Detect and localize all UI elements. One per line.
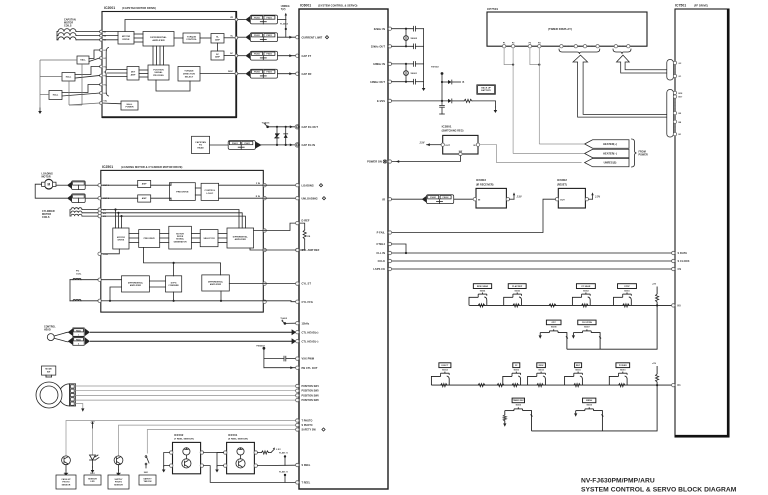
wire COM to motor drive	[101, 249, 119, 254]
wire position bottom loop to torque direction select	[156, 80, 190, 91]
svg-text:J.5V: J.5V	[276, 449, 281, 451]
svg-text:CCLK: CCLK	[378, 259, 385, 263]
svg-text:DIFFERENTIAL: DIFFERENTIAL	[128, 281, 144, 284]
pin IR	[388, 198, 391, 201]
svg-text:IN: IN	[478, 199, 481, 201]
svg-text:DIFFERENTIAL: DIFFERENTIAL	[233, 235, 249, 238]
svg-text:CTL HEAD(−): CTL HEAD(−)	[302, 339, 319, 343]
svg-text:T REEL: T REEL	[302, 482, 311, 485]
wire duty compare feedback	[144, 247, 221, 275]
svg-text:S6001: S6001	[624, 291, 629, 293]
svg-text:PRE DRIVE: PRE DRIVE	[176, 191, 189, 193]
svg-text:NV-FJ630PM/PMP/ARU: NV-FJ630PM/PMP/ARU	[581, 478, 655, 485]
block torque direction select	[178, 67, 200, 82]
wire det amp to position x3	[139, 69, 148, 71]
svg-text:FS211: FS211	[267, 72, 273, 74]
svg-text:T PHOTO: T PHOTO	[302, 420, 313, 423]
svg-text:VXX PWM: VXX PWM	[302, 357, 315, 361]
pin P FAIL	[388, 231, 391, 234]
svg-text:PRE DRIVE: PRE DRIVE	[144, 238, 156, 240]
wire K0 sub return	[567, 305, 657, 349]
svg-text:H2+: H2+	[104, 67, 108, 69]
connector row CURRENT LIMIT	[238, 36, 245, 38]
svg-text:CLL IN: CLL IN	[376, 251, 385, 255]
wire bus motor coils to motor drive	[102, 31, 118, 33]
wire PG coil lines	[70, 279, 98, 281]
pins IC1501	[224, 451, 227, 454]
svg-text:S6015: S6015	[586, 405, 591, 407]
svg-text:MOTOR: MOTOR	[42, 176, 51, 179]
svg-text:CS: CS	[678, 267, 682, 271]
pin IC6002 VCC	[585, 198, 588, 201]
svg-text:DIRECTION: DIRECTION	[183, 73, 195, 75]
wire out1 amp	[101, 184, 137, 186]
diode pair FG clamp	[276, 126, 278, 128]
svg-text:SENSOR: SENSOR	[62, 484, 71, 486]
svg-text:+5V: +5V	[652, 284, 657, 286]
wire hall power sense	[81, 64, 83, 105]
svg-text:LOADING: LOADING	[302, 183, 314, 187]
block IC1501	[227, 442, 255, 473]
svg-text:HALL: HALL	[127, 103, 133, 106]
wire IC1501 left stubs	[217, 453, 224, 466]
brace group A	[559, 49, 600, 54]
svg-text:7(V): 7(V)	[281, 8, 286, 11]
block differential amplifier pg	[122, 276, 150, 292]
block differential amplifier ctl	[202, 275, 230, 291]
switch EJECT	[439, 363, 451, 368]
svg-text:CAP FT: CAP FT	[302, 54, 312, 58]
connector FS02 out1	[72, 181, 86, 190]
wire CAP FG IN line	[255, 144, 295, 146]
block control logic	[201, 183, 219, 200]
connector row UNREG	[238, 19, 245, 21]
pin VXX PWM	[296, 357, 299, 360]
svg-text:S6011: S6011	[575, 370, 580, 372]
wire ctl head minus	[68, 337, 73, 345]
svg-text:SENSOR: SENSOR	[88, 478, 97, 480]
svg-text:AMPLIFIER: AMPLIFIER	[235, 238, 247, 241]
svg-text:IN: IN	[473, 145, 476, 147]
crystal X6002	[405, 29, 407, 36]
block pre drive loading	[169, 183, 195, 201]
svg-text:UNREG(S): UNREG(S)	[604, 162, 617, 165]
hall sensor H2	[62, 73, 75, 82]
svg-text:S601: S601	[144, 472, 148, 474]
wire diff ctl bottom	[220, 291, 222, 301]
svg-text:POWER: POWER	[125, 107, 134, 109]
pin IC6003 IN	[473, 198, 476, 201]
svg-text:FS201: FS201	[254, 54, 260, 56]
mode switch wiper housing	[61, 384, 70, 406]
block CP7501 display	[487, 12, 647, 46]
switch REC	[575, 363, 582, 368]
wire crystal ground rail	[423, 29, 425, 85]
hollow arrow segments bus	[573, 55, 667, 117]
switch STOP row1	[618, 284, 637, 289]
svg-text:TW10U: TW10U	[431, 67, 439, 69]
svg-text:CASS-UP: CASS-UP	[61, 478, 71, 481]
wire bus selector-diffamp	[218, 233, 227, 235]
svg-text:FS602: FS602	[443, 197, 449, 199]
svg-text:FS201: FS201	[254, 18, 260, 20]
pin T REEL	[296, 481, 299, 484]
block position signal process	[148, 65, 169, 80]
svg-text:X6002: X6002	[411, 38, 418, 40]
block duty compare	[166, 276, 182, 292]
svg-text:12MHz IN: 12MHz IN	[373, 62, 385, 66]
wire display P4 to heater+	[538, 48, 540, 144]
switch REW2	[537, 363, 546, 368]
crystal X6001	[405, 64, 407, 71]
svg-text:(CAPSTAN MOTOR DRIVE): (CAPSTAN MOTOR DRIVE)	[122, 6, 156, 10]
svg-text:HALL: HALL	[66, 75, 72, 78]
capstan motor coil windings	[58, 29, 76, 32]
block hall power	[121, 101, 138, 110]
svg-text:HALL: HALL	[80, 59, 86, 62]
svg-text:CYL FFG: CYL FFG	[302, 300, 313, 304]
wire hall bus to det amp	[107, 69, 127, 71]
svg-text:EJECT: EJECT	[442, 365, 449, 367]
svg-text:OPC: OPC	[551, 322, 556, 324]
wire K1 sub return	[532, 385, 658, 431]
svg-text:12kHz: 12kHz	[302, 321, 310, 325]
svg-text:Q501: Q501	[116, 473, 121, 475]
block IC2801	[443, 135, 478, 154]
svg-text:REW SEAR: REW SEAR	[477, 285, 489, 288]
svg-text:SAFETY: SAFETY	[143, 477, 152, 480]
svg-text:AMP: AMP	[215, 38, 220, 41]
block differential amplifier U-A	[143, 32, 174, 47]
cass-up photo sensor	[62, 456, 71, 465]
svg-text:STOP: STOP	[624, 286, 630, 288]
bus S CLOCK	[388, 259, 391, 262]
wire IC1501 to J5V	[258, 452, 262, 454]
wire CAP FG OUT line	[268, 126, 296, 128]
svg-text:CP7501: CP7501	[487, 7, 498, 11]
wire loading motor out2	[35, 184, 67, 198]
pin SAFETY SW	[296, 428, 299, 431]
pin 32kHz IN	[388, 27, 391, 30]
svg-text:TIMER REC: TIMER REC	[513, 400, 525, 402]
supply photo sensor	[114, 456, 123, 465]
svg-text:FS201: FS201	[254, 35, 260, 37]
svg-text:FS211: FS211	[267, 35, 273, 37]
svg-text:CURRENT LIMIT: CURRENT LIMIT	[302, 35, 323, 39]
wire out2 amp	[101, 197, 137, 199]
svg-text:POWER ON: POWER ON	[367, 160, 382, 164]
pin LOADING	[296, 184, 299, 187]
wire PB CTL OUT	[264, 367, 296, 369]
svg-text:SYSTEM CONTROL & SERVO BLOCK D: SYSTEM CONTROL & SERVO BLOCK DIAGRAM	[581, 486, 737, 493]
wire VR feedback to motor drive	[125, 20, 236, 32]
svg-text:TORQUE: TORQUE	[184, 71, 194, 73]
svg-text:TORQUE: TORQUE	[187, 36, 197, 38]
svg-text:CONTROL: CONTROL	[44, 327, 56, 329]
svg-text:S6016: S6016	[516, 405, 521, 407]
svg-text:DIFFERENTIAL: DIFFERENTIAL	[150, 36, 167, 39]
svg-text:SENSOR: SENSOR	[114, 484, 123, 486]
wire IC1502 left stubs	[164, 453, 170, 466]
svg-text:FS601: FS601	[430, 197, 436, 199]
svg-text:DVFG: DVFG	[171, 282, 177, 284]
block IC1502	[173, 442, 201, 473]
connector FS601/FS611	[228, 141, 255, 150]
wire 32kHz network	[392, 28, 414, 30]
svg-text:POSITION SW5: POSITION SW5	[302, 391, 320, 393]
svg-text:(LOADING MOTOR & CYLINDER MOTO: (LOADING MOTOR & CYLINDER MOTOR DRIVE)	[121, 165, 183, 169]
wire VSL pin to hall power	[102, 102, 121, 105]
svg-text:S PHOTO: S PHOTO	[302, 424, 313, 427]
pin CTL HEAD-	[296, 340, 299, 343]
svg-text:CONTROL: CONTROL	[186, 39, 197, 41]
arrow HEATER(&#8722;)	[585, 149, 629, 157]
block selector	[200, 230, 218, 247]
wire heater+ to display	[539, 143, 584, 145]
svg-text:IC6003: IC6003	[476, 178, 486, 182]
wire hall3 outputs	[62, 85, 100, 93]
block amp2	[138, 195, 151, 202]
pins display segment group A	[560, 45, 563, 48]
block capstan FG head	[192, 136, 210, 153]
svg-text:S CLOCK: S CLOCK	[678, 259, 690, 263]
pins IC1502	[170, 451, 173, 454]
wire pg return long	[110, 300, 263, 302]
svg-text:IC7501: IC7501	[675, 4, 686, 8]
svg-text:BATTERY: BATTERY	[481, 89, 491, 92]
wire cyl M bus	[101, 210, 239, 229]
svg-text:IC2501: IC2501	[102, 165, 113, 169]
svg-text:AMP: AMP	[142, 183, 147, 186]
svg-text:OUT: OUT	[560, 199, 565, 201]
bus CS	[388, 267, 391, 270]
pin 12MHz IN	[388, 62, 391, 65]
switch PLAY	[508, 284, 526, 289]
svg-text:COMPARE: COMPARE	[168, 284, 179, 287]
svg-text:IC1501: IC1501	[228, 433, 238, 437]
svg-text:MOTOR: MOTOR	[117, 237, 125, 239]
block amp1	[138, 180, 151, 187]
wire R IN	[219, 197, 296, 199]
wire TW10U rail	[441, 74, 443, 105]
control head symbol	[47, 334, 54, 341]
wire K0 line	[469, 304, 671, 306]
svg-text:IR: IR	[382, 197, 385, 201]
pin IC2801 OUT	[441, 143, 444, 146]
svg-text:PHOTO: PHOTO	[115, 482, 123, 484]
svg-text:J.5V: J.5V	[517, 196, 522, 199]
svg-text:COILS: COILS	[42, 216, 50, 219]
wire torque direction select to pin DISC	[200, 73, 236, 75]
pin IC6002 OUT	[555, 198, 558, 201]
svg-text:FS611: FS611	[244, 143, 250, 145]
svg-text:FF SEAR: FF SEAR	[581, 285, 590, 288]
svg-text:CTBL4: CTBL4	[376, 242, 385, 246]
connector row CAP FR	[238, 73, 245, 75]
wire IC6003 J5V	[510, 198, 514, 200]
svg-text:HEATER(+): HEATER(+)	[603, 143, 617, 146]
svg-text:HEATER(−): HEATER(−)	[603, 153, 617, 156]
svg-text:SIGNAL: SIGNAL	[176, 238, 185, 241]
pins display filament	[502, 45, 505, 48]
connector FS02 out2	[72, 194, 86, 203]
pins IC2001 right edge	[235, 18, 238, 21]
svg-text:FS601: FS601	[232, 143, 238, 145]
block det amp	[127, 67, 139, 81]
capacitors 32kHz	[413, 26, 415, 31]
svg-text:S6010: S6010	[620, 370, 625, 372]
svg-text:SW: SW	[47, 372, 50, 374]
svg-text:FS211: FS211	[267, 18, 273, 20]
svg-text:FS601: FS601	[76, 339, 81, 341]
wire E-VSS to battery	[392, 100, 448, 102]
svg-text:S6002: S6002	[583, 291, 588, 293]
pin S PHOTO	[296, 423, 299, 426]
svg-text:S6013: S6013	[514, 370, 519, 372]
svg-text:CB: CB	[307, 236, 311, 238]
svg-text:MENU: MENU	[586, 400, 593, 402]
wire IR to connector	[392, 198, 422, 200]
wire predrive to control logic x2	[195, 187, 201, 189]
svg-text:FG: FG	[199, 145, 202, 147]
svg-text:AMP: AMP	[215, 56, 220, 59]
wires position sw	[76, 385, 296, 387]
svg-text:AMP: AMP	[131, 73, 136, 76]
svg-text:TL401 S: TL401 S	[279, 452, 288, 455]
svg-text:OUT: OUT	[445, 145, 450, 147]
svg-text:HALL: HALL	[53, 94, 59, 97]
block IC7501	[675, 9, 729, 437]
svg-text:SC: SC	[230, 53, 233, 55]
stub CTBL4	[388, 242, 391, 245]
switch POWER	[616, 363, 630, 368]
wire CYL FFG	[263, 300, 291, 302]
cylinder coil windings	[71, 208, 82, 210]
svg-text:IC1502: IC1502	[174, 433, 184, 437]
svg-text:CYL AMP REF: CYL AMP REF	[302, 248, 320, 252]
bracket display pins pair	[667, 60, 674, 81]
svg-text:MODE: MODE	[45, 369, 52, 371]
wire hall2 outputs	[75, 67, 100, 75]
svg-text:HEAD: HEAD	[197, 147, 204, 150]
svg-text:FS211: FS211	[267, 54, 273, 56]
svg-text:DISC: DISC	[228, 71, 233, 73]
block torque control	[183, 33, 200, 43]
wire display P2 to heater-	[512, 48, 514, 154]
wire torque control to SL amp	[200, 37, 211, 39]
pin IC2801 IN	[476, 143, 479, 146]
svg-text:H2-: H2-	[104, 76, 107, 78]
wire bus mdsg-selector	[191, 233, 200, 235]
wire FG head to connector	[210, 144, 229, 146]
wire S PHOTO	[119, 425, 296, 456]
wire diff amp to position signal process x4	[152, 46, 154, 65]
svg-text:(TIMER DISPLAY): (TIMER DISPLAY)	[548, 27, 572, 31]
svg-text:LED: LED	[90, 481, 95, 483]
svg-text:LSPS CK: LSPS CK	[373, 267, 385, 271]
wire duty compare to CYL FFG	[173, 292, 175, 301]
svg-text:COIL: COIL	[76, 273, 82, 275]
wire IN from UNREG	[480, 145, 582, 163]
svg-text:REC: REC	[576, 365, 581, 367]
svg-text:PLAY/REP: PLAY/REP	[512, 285, 523, 288]
wire SW to POWER ON	[392, 156, 461, 162]
arrow UNREG(S)	[585, 158, 629, 166]
pin IC2801 SW	[459, 152, 462, 155]
pin 12MHz OUT	[388, 80, 391, 83]
wire hall1 outputs	[89, 50, 100, 59]
pins IC7501 B18-B1	[673, 91, 676, 94]
block IC6003	[476, 188, 506, 208]
svg-text:P FAIL: P FAIL	[377, 231, 386, 235]
svg-text:32kHz IN: 32kHz IN	[374, 27, 385, 31]
svg-text:(IR RECEIVER): (IR RECEIVER)	[476, 183, 494, 186]
svg-text:AMPLIFIER: AMPLIFIER	[152, 39, 165, 42]
svg-text:S DATA: S DATA	[678, 251, 688, 255]
sensor LED	[92, 428, 94, 455]
resistor K1 mid	[478, 384, 485, 387]
svg-text:E-VSS: E-VSS	[377, 99, 385, 103]
block motor drive signal generator	[169, 226, 192, 249]
wire display P1	[504, 48, 513, 65]
svg-text:IC6002: IC6002	[557, 178, 567, 182]
switch REW/SEARCH	[473, 284, 491, 289]
switch OPC	[546, 320, 561, 325]
svg-text:Q502: Q502	[64, 473, 69, 475]
pin CAP FG IN	[295, 143, 299, 147]
svg-text:POWER: POWER	[619, 365, 627, 367]
loading motor symbol	[44, 180, 53, 189]
svg-text:SAFETY SW: SAFETY SW	[302, 429, 317, 432]
pin 12kHz	[296, 322, 299, 325]
svg-text:H3-: H3-	[104, 93, 107, 95]
pin S REEL	[296, 463, 299, 466]
arrow HEATER(+)	[585, 140, 629, 148]
svg-text:H1-: H1-	[104, 58, 107, 60]
brace group B	[613, 49, 631, 54]
svg-text:SELECT: SELECT	[185, 76, 194, 78]
svg-text:M3: M3	[104, 40, 107, 42]
switch MENU	[583, 398, 596, 403]
svg-text:AMPLIFIER: AMPLIFIER	[130, 284, 142, 287]
switch FF/SEARCH	[576, 284, 595, 289]
svg-text:S6004: S6004	[480, 290, 485, 293]
svg-text:VR: VR	[230, 17, 233, 19]
svg-text:POWER: POWER	[639, 154, 649, 157]
reference resistor loop	[300, 223, 305, 230]
svg-text:S6014: S6014	[442, 369, 447, 372]
svg-text:CTL HEAD(+): CTL HEAD(+)	[302, 330, 319, 334]
svg-text:D501: D501	[90, 473, 95, 475]
connector row CAP FT	[238, 55, 245, 57]
svg-text:PG: PG	[76, 271, 80, 273]
svg-text:(RESET): (RESET)	[557, 183, 567, 186]
svg-text:CAP FG OUT: CAP FG OUT	[302, 125, 319, 129]
svg-text:1: 1	[78, 335, 79, 337]
wire 12MHz network	[392, 63, 414, 65]
block pre drive cyl	[139, 230, 160, 248]
hall sensor H3	[49, 91, 62, 100]
wire SC amp to pin SC	[224, 55, 236, 57]
svg-text:HEAD: HEAD	[44, 328, 51, 331]
wire K1 line	[431, 384, 671, 386]
brace from power	[632, 139, 637, 167]
svg-text:M1: M1	[104, 32, 107, 34]
wire amp1 to predrive	[151, 184, 171, 186]
wire VXX PWM with cap	[264, 358, 284, 360]
svg-text:SUPPLY: SUPPLY	[114, 479, 123, 481]
svg-text:LOGIC: LOGIC	[206, 193, 213, 195]
